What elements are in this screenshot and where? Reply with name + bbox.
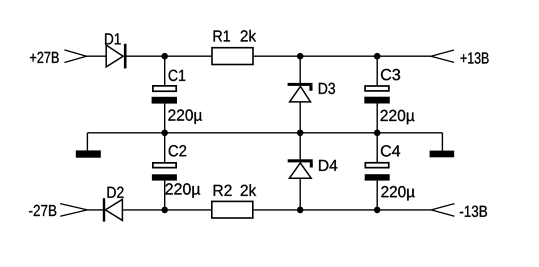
resistor R2 [212, 201, 253, 218]
terminal chevron -13В [431, 204, 454, 217]
label D2 [108, 187, 124, 198]
value label 220µ (C2) [166, 183, 201, 198]
value label 2k (R2) [241, 184, 257, 196]
wire R1 to +13В terminal [254, 55, 431, 57]
wire D4 top lead [299, 133, 301, 160]
capacitor C2 [152, 163, 177, 181]
junction node at D4 bottom [297, 207, 304, 214]
diode D2 [103, 198, 123, 221]
label R2 [214, 185, 232, 196]
label R1 [214, 31, 230, 42]
wire C2 bottom lead [164, 181, 166, 210]
label D4 [319, 160, 337, 171]
diode D1 [106, 44, 126, 69]
wire C3 top lead [376, 56, 378, 85]
ground (left) [76, 133, 101, 158]
wire D1 cathode to R1 [127, 55, 212, 57]
wire from -27В terminal to D2 cathode [87, 209, 103, 211]
junction node C3/C4 on bus [374, 130, 381, 137]
wire R2 to -13В terminal [254, 209, 432, 211]
label D3 [319, 83, 335, 94]
capacitor C4 [365, 163, 390, 181]
net label +13В [461, 52, 489, 63]
resistor R1 [212, 48, 253, 65]
wire C2 top lead [164, 133, 166, 163]
label C3 [381, 69, 400, 80]
terminal chevron +27В [64, 50, 86, 63]
value label 2k (R1) [241, 30, 256, 42]
junction node at D3 top [297, 53, 304, 60]
wire D3 bottom lead [299, 102, 301, 133]
junction node C1/C2 on bus [161, 130, 168, 137]
wire from +27В terminal to D1 anode [87, 55, 108, 57]
junction node D3/D4 on bus [297, 130, 304, 137]
label D1 [105, 33, 121, 44]
junction node at C4 bottom [374, 207, 381, 214]
terminal chevron -27В [60, 204, 87, 217]
net label -27В [29, 205, 56, 216]
wire C1 top lead [164, 56, 166, 85]
wire C3 bottom lead [376, 104, 378, 133]
junction node at C1 top [161, 53, 168, 60]
label C2 [169, 145, 187, 156]
wire C4 top lead [376, 133, 378, 163]
middle ground bus wire [87, 132, 442, 134]
capacitor C1 [152, 86, 177, 104]
label C1 [169, 70, 186, 81]
zener diode D4 [288, 159, 313, 178]
net label -13В [460, 206, 487, 217]
ground (right) [430, 133, 455, 158]
zener diode D3 [288, 83, 313, 102]
wire D4 bottom lead [299, 179, 301, 210]
wire C4 bottom lead [376, 181, 378, 210]
wire C1 bottom lead [164, 104, 166, 133]
label C4 [381, 145, 400, 156]
net label +27В [30, 52, 59, 63]
junction node at C2 bottom [161, 207, 168, 214]
wire D2 anode to R2 [123, 209, 211, 211]
capacitor C3 [364, 86, 390, 104]
junction node at C3 top [374, 53, 381, 60]
value label 220µ (C4) [381, 186, 414, 201]
value label 220µ (C1) [168, 109, 202, 124]
terminal chevron +13В [431, 50, 454, 62]
wire D3 top lead [299, 56, 301, 83]
value label 220µ (C3) [381, 110, 415, 125]
